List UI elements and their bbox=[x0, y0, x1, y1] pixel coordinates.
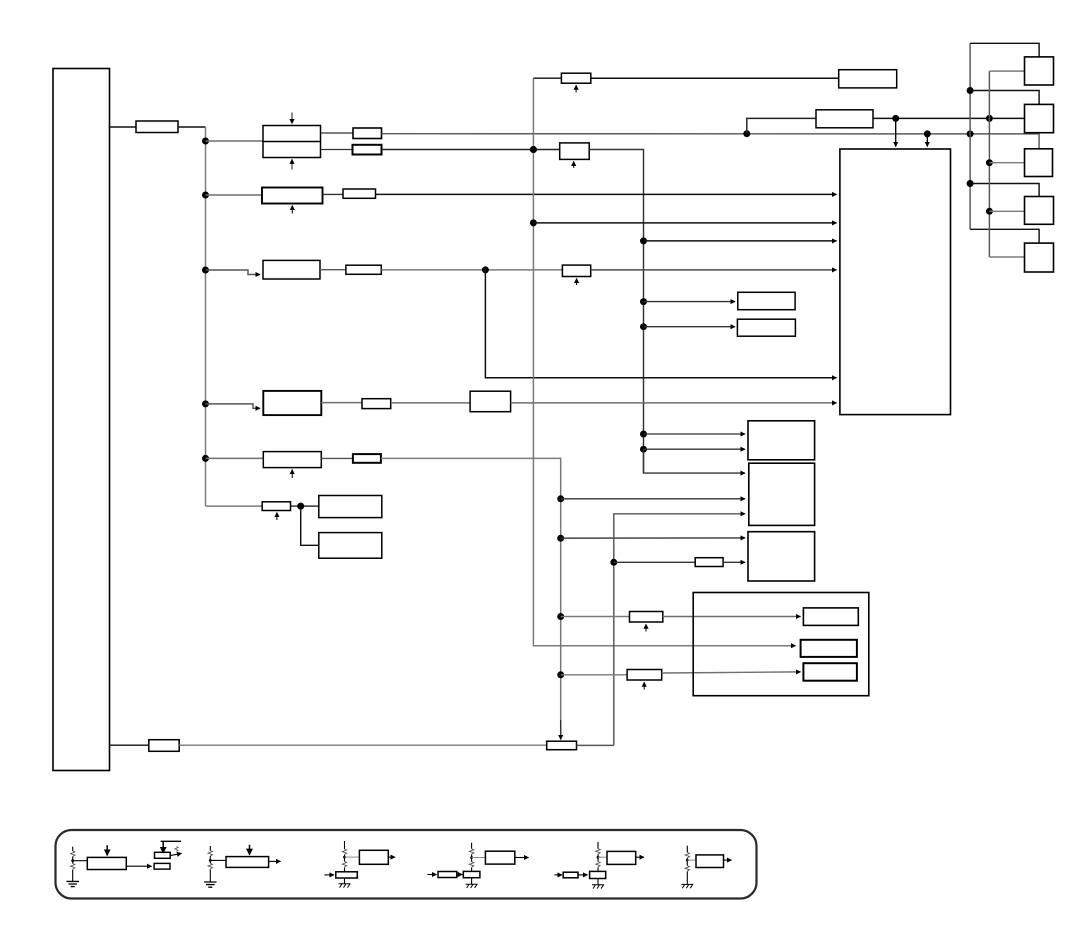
wire row3 out bbox=[320, 269, 346, 271]
wire v561 into stack box C bbox=[561, 537, 745, 539]
wire rect to bus corner bbox=[178, 126, 206, 128]
legend5 rect1 bbox=[563, 872, 578, 878]
wire row1 lower to mid rect2 bbox=[382, 149, 560, 151]
legend3 small rect bbox=[336, 872, 358, 878]
legend2 out arrow bbox=[269, 860, 281, 862]
wire bus to row3 block with jog bbox=[206, 270, 261, 275]
wire row4 into big box bbox=[511, 402, 837, 404]
wire center vertical into big box bbox=[533, 222, 836, 224]
wire v561 to rect row7 bbox=[561, 616, 630, 618]
vertical net from bottom rect up to stack box B bbox=[614, 514, 745, 746]
legend6 tap node bbox=[686, 859, 689, 862]
wire bus to row5 block bbox=[206, 457, 264, 459]
legend3 resistor squiggle upper bbox=[342, 849, 346, 854]
wire rect row8 into inner rect3 bbox=[662, 672, 801, 673]
legend3 supply wire with resistors bbox=[344, 841, 346, 872]
legend1 arrow bar into upper rect bbox=[162, 841, 164, 853]
wire rect row6 to node bbox=[291, 505, 319, 507]
legend6 out arrow bbox=[724, 859, 732, 861]
legend5 block bbox=[607, 851, 636, 864]
row2 block bbox=[262, 188, 323, 204]
node v644 branch5 bbox=[640, 446, 647, 453]
legend3 out arrow bbox=[388, 856, 395, 858]
arrow into row1 block bottom bbox=[291, 159, 293, 169]
main left tall block bbox=[53, 69, 110, 771]
rect row7 bbox=[630, 612, 663, 623]
legend5 arrow rect1 to rect2 bbox=[578, 874, 588, 876]
center vertical net bbox=[533, 78, 795, 646]
legend1 small out arrow bbox=[170, 853, 181, 855]
legend1 resistor squiggle lower bbox=[70, 864, 74, 869]
legend4 tap node bbox=[470, 856, 473, 859]
long bottom wire bbox=[179, 744, 547, 746]
rect row1 upper bbox=[353, 128, 382, 139]
wire row5 to vertical561 corner bbox=[381, 458, 561, 734]
wire rect row4 to relay block bbox=[391, 402, 470, 404]
node v644 branch3 bbox=[640, 323, 647, 330]
arrow up into rect row8 bottom bbox=[643, 682, 645, 689]
legend6 hatched ground bbox=[681, 882, 693, 888]
node v561 lower branch2 bbox=[557, 671, 564, 678]
wire mid rect2 to vertical644 bbox=[589, 150, 643, 474]
legend3 tap wire bbox=[345, 856, 360, 858]
node on center vertical bbox=[530, 146, 537, 153]
legend rounded frame bbox=[56, 830, 757, 899]
legend4 tap wire bbox=[472, 857, 486, 859]
inner rect2 bbox=[801, 640, 857, 657]
legend4 resistor squiggle upper bbox=[469, 849, 473, 854]
node row6 bbox=[297, 503, 304, 510]
legend3 in arrow bbox=[324, 874, 334, 876]
row4 block bbox=[263, 391, 321, 415]
node v644 branch1 bbox=[640, 237, 647, 244]
wire bus to row2 block bbox=[206, 194, 263, 196]
wire row1 lower out bbox=[321, 149, 353, 151]
legend1 upper small rect bbox=[155, 852, 171, 858]
node row2 bbox=[202, 192, 209, 199]
legend5 hatched ground bbox=[592, 885, 604, 889]
square2 bbox=[1025, 104, 1054, 132]
legend4 hatched ground bbox=[466, 884, 478, 888]
wire line1 to square4 top bbox=[970, 184, 1039, 197]
rect row2 bbox=[343, 189, 376, 198]
wire row3 branch down and into big box bbox=[485, 270, 836, 378]
legend2 ground bbox=[204, 882, 217, 887]
legend4 rect1 bbox=[438, 872, 457, 878]
inner rect3 bbox=[803, 663, 857, 681]
wire v644 branch1 into big box bbox=[644, 240, 837, 242]
square5 bbox=[1025, 243, 1054, 272]
node v561 lower branch1 bbox=[557, 613, 564, 620]
bottom mid rect bbox=[547, 741, 577, 750]
stack box C bbox=[748, 532, 815, 581]
right rect A bbox=[738, 292, 795, 309]
node line2 sq3 bbox=[986, 159, 993, 166]
legend1 resistor squiggle upper bbox=[70, 851, 74, 856]
legend5 supply wire with resistors bbox=[597, 842, 599, 871]
wire line2 top to square1 left bbox=[989, 70, 1024, 72]
wire line2 bottom to square5 left bbox=[989, 256, 1024, 258]
stack box B bbox=[749, 463, 815, 525]
square1 bbox=[1025, 57, 1054, 85]
right rect B bbox=[737, 319, 795, 336]
row5 block bbox=[263, 452, 321, 468]
vertical bus bbox=[205, 127, 207, 506]
right feeder line1 vertical bbox=[969, 43, 971, 229]
wire mid rect to square2 bbox=[873, 117, 1025, 119]
wire v614 branch to small rect bbox=[614, 561, 695, 563]
legend4 in arrow bbox=[427, 874, 436, 876]
arrow into row1 block top bbox=[291, 113, 293, 124]
node v644 branch2 bbox=[640, 298, 647, 305]
legend2 supply wire with resistors bbox=[209, 846, 211, 882]
legend5 tap node bbox=[597, 856, 600, 859]
arrow up into rect row6 bottom bbox=[276, 513, 278, 521]
wire line2 to square4 left bbox=[989, 210, 1024, 212]
node center vertical branch bbox=[530, 219, 537, 226]
mid rect2 bbox=[560, 143, 590, 160]
legend4 block bbox=[485, 851, 514, 864]
arrow up into row2 block bottom bbox=[291, 206, 293, 214]
legend1 small resistor mark bbox=[175, 847, 178, 852]
rect row4 bbox=[362, 399, 391, 409]
wire row4 out bbox=[321, 402, 362, 404]
wire line1 to square2 top bbox=[970, 91, 1039, 105]
legend1 tap wire bbox=[73, 860, 88, 862]
legend5 in arrow bbox=[554, 874, 562, 876]
mid rect3 row3 bbox=[562, 265, 590, 276]
wire rect row7 into inner rect1 bbox=[663, 616, 801, 618]
mid rect right-top bbox=[816, 110, 873, 128]
top right block bbox=[839, 70, 897, 88]
node v644 branch4 bbox=[640, 431, 647, 438]
arrow down into bottom rect top bbox=[560, 720, 562, 740]
node line1 b2 bbox=[967, 87, 974, 94]
legend4 out arrow bbox=[515, 857, 529, 859]
node v561 to stack box C bbox=[557, 535, 564, 542]
wire v561 to rect row8 bbox=[561, 674, 627, 676]
rect row1 lower bbox=[353, 145, 382, 155]
legend6 resistor squiggle lower bbox=[685, 866, 689, 871]
wire bus row6 corner to rect bbox=[206, 505, 263, 507]
legend5 out arrow bbox=[636, 856, 644, 858]
legend6 block bbox=[696, 855, 724, 868]
legend5 resistor squiggle upper bbox=[596, 849, 600, 854]
input rect top-left bbox=[136, 121, 178, 133]
wire row2 out bbox=[323, 193, 344, 195]
arrow up into mid rect2 bottom bbox=[573, 161, 575, 168]
legend6 supply wire with resistors bbox=[686, 846, 688, 882]
wire row1 upper out bbox=[321, 132, 354, 134]
wire row6 node down to lower block bbox=[301, 506, 319, 545]
wire bus to row4 block with jog bbox=[206, 404, 261, 408]
legend3 block bbox=[359, 850, 388, 864]
row1 double block bbox=[263, 126, 321, 158]
wire line1 bottom to square5 top bbox=[970, 229, 1039, 243]
node center vertical row1 lower bbox=[530, 146, 537, 153]
legend3 tap node bbox=[343, 856, 346, 859]
legend1 out arrow to rect bbox=[126, 865, 151, 867]
legend2 arrow into block top bbox=[249, 845, 251, 855]
top small rect bbox=[561, 73, 590, 83]
legend4 resistor squiggle lower bbox=[469, 862, 473, 867]
arrow up into rect row7 bottom bbox=[645, 624, 647, 631]
wire row3 into big box bbox=[591, 269, 837, 271]
legend2 tap wire bbox=[210, 859, 226, 861]
node row1 bbox=[202, 138, 209, 145]
wire top corner to top rect bbox=[533, 77, 561, 79]
node line2 sq4 bbox=[986, 208, 993, 215]
legend1 supply wire with resistors bbox=[72, 847, 74, 882]
node line1 junction bbox=[967, 130, 974, 137]
row1 block divider bbox=[263, 141, 321, 143]
legend1 ground bbox=[67, 881, 80, 886]
wire v644 corner into stack box B bbox=[644, 449, 746, 473]
square3 bbox=[1025, 149, 1053, 177]
stack box A bbox=[748, 421, 815, 460]
legend5 rect2 bbox=[590, 871, 606, 878]
legend6 tap wire bbox=[687, 859, 696, 861]
rect row3 bbox=[346, 265, 381, 274]
legend3 ground stem bbox=[344, 878, 346, 884]
legend5 ground stem bbox=[597, 879, 599, 885]
wire bus to row1 block bbox=[206, 140, 264, 142]
wire v644 branch4 into stack box A bbox=[644, 433, 746, 435]
legend4 rect2 bbox=[463, 871, 480, 877]
wire v561 into stack box B bbox=[561, 498, 745, 500]
arrow down into big box top 1 bbox=[895, 118, 897, 146]
arrow down into big box top 2 bbox=[926, 134, 928, 147]
node branch up bbox=[743, 130, 750, 137]
wire main block bottom out bbox=[110, 744, 149, 746]
legend6 resistor squiggle upper bbox=[685, 852, 689, 857]
legend1 lower small rect bbox=[154, 863, 170, 869]
rect row8 bbox=[627, 670, 662, 681]
legend5 tap wire bbox=[598, 856, 607, 858]
inner rect1 bbox=[803, 608, 858, 626]
legend2 resistor squiggle upper bbox=[208, 851, 212, 856]
wire v644 branch3 into right rect B bbox=[644, 326, 736, 328]
arrow up into mid rect3 bottom bbox=[576, 279, 578, 286]
wire line1 top to square1 top bbox=[970, 43, 1039, 57]
node line2 junction bbox=[986, 115, 993, 122]
legend1 arrow into block top bbox=[106, 845, 108, 855]
node row3 branch bbox=[482, 266, 489, 273]
big right box bbox=[840, 149, 951, 415]
wire small rect into stack box C bbox=[723, 561, 745, 563]
legend2 resistor squiggle lower bbox=[208, 863, 212, 868]
legend4 ground stem bbox=[471, 878, 473, 885]
right feeder line2 vertical bbox=[988, 71, 990, 257]
node row3 bbox=[202, 267, 209, 274]
relay block row4 bbox=[470, 391, 511, 412]
legend5 resistor squiggle lower bbox=[596, 862, 600, 867]
legend1 top bar bbox=[161, 840, 181, 842]
legend4 arrow rect1 to rect2 bbox=[457, 874, 463, 876]
node v561 to stack box B bbox=[557, 495, 564, 502]
row6 block upper bbox=[319, 496, 382, 518]
rect row5 bbox=[353, 454, 381, 463]
row3 block bbox=[263, 260, 320, 279]
legend2 tap node bbox=[209, 859, 212, 862]
wire v644 branch2 into right rect A bbox=[644, 301, 736, 303]
node v614 branch bbox=[610, 559, 617, 566]
wire top rect to top right block bbox=[591, 77, 839, 79]
node above big box right bbox=[924, 130, 931, 137]
wire from main block to input rect bbox=[110, 126, 137, 128]
wire line2 to square3 left bbox=[989, 162, 1024, 164]
node row5 bbox=[202, 455, 209, 462]
row6 block lower bbox=[319, 533, 382, 559]
wire row2 into big box bbox=[376, 193, 837, 195]
legend3 resistor squiggle lower bbox=[342, 862, 346, 867]
node line1 b4 bbox=[967, 180, 974, 187]
legend2 block bbox=[226, 857, 269, 868]
legend1 tap node bbox=[71, 859, 74, 862]
arrow up into top small rect bottom bbox=[575, 85, 577, 92]
square4 bbox=[1025, 197, 1054, 225]
wire bottom rect to v614 bbox=[577, 744, 614, 746]
legend3 hatched ground bbox=[339, 884, 351, 888]
small rect before stack box C bbox=[695, 558, 723, 567]
wire row3 long bbox=[381, 269, 562, 271]
rect row6 bbox=[262, 502, 290, 511]
wire v644 branch5 into stack box A bbox=[644, 448, 746, 450]
legend4 supply wire with resistors bbox=[471, 843, 473, 872]
wire branch up to mid rect bbox=[747, 118, 816, 133]
arrow up into row5 block bottom bbox=[291, 470, 293, 478]
node above big box left bbox=[892, 115, 899, 122]
wire row1 upper long to right bend into square3 top bbox=[382, 134, 1040, 149]
wire row5 out bbox=[321, 457, 353, 459]
bottom-right outline box bbox=[693, 593, 869, 696]
bottom-left rect bbox=[149, 740, 179, 752]
node row4 bbox=[202, 400, 209, 407]
legend1 block bbox=[87, 857, 126, 869]
